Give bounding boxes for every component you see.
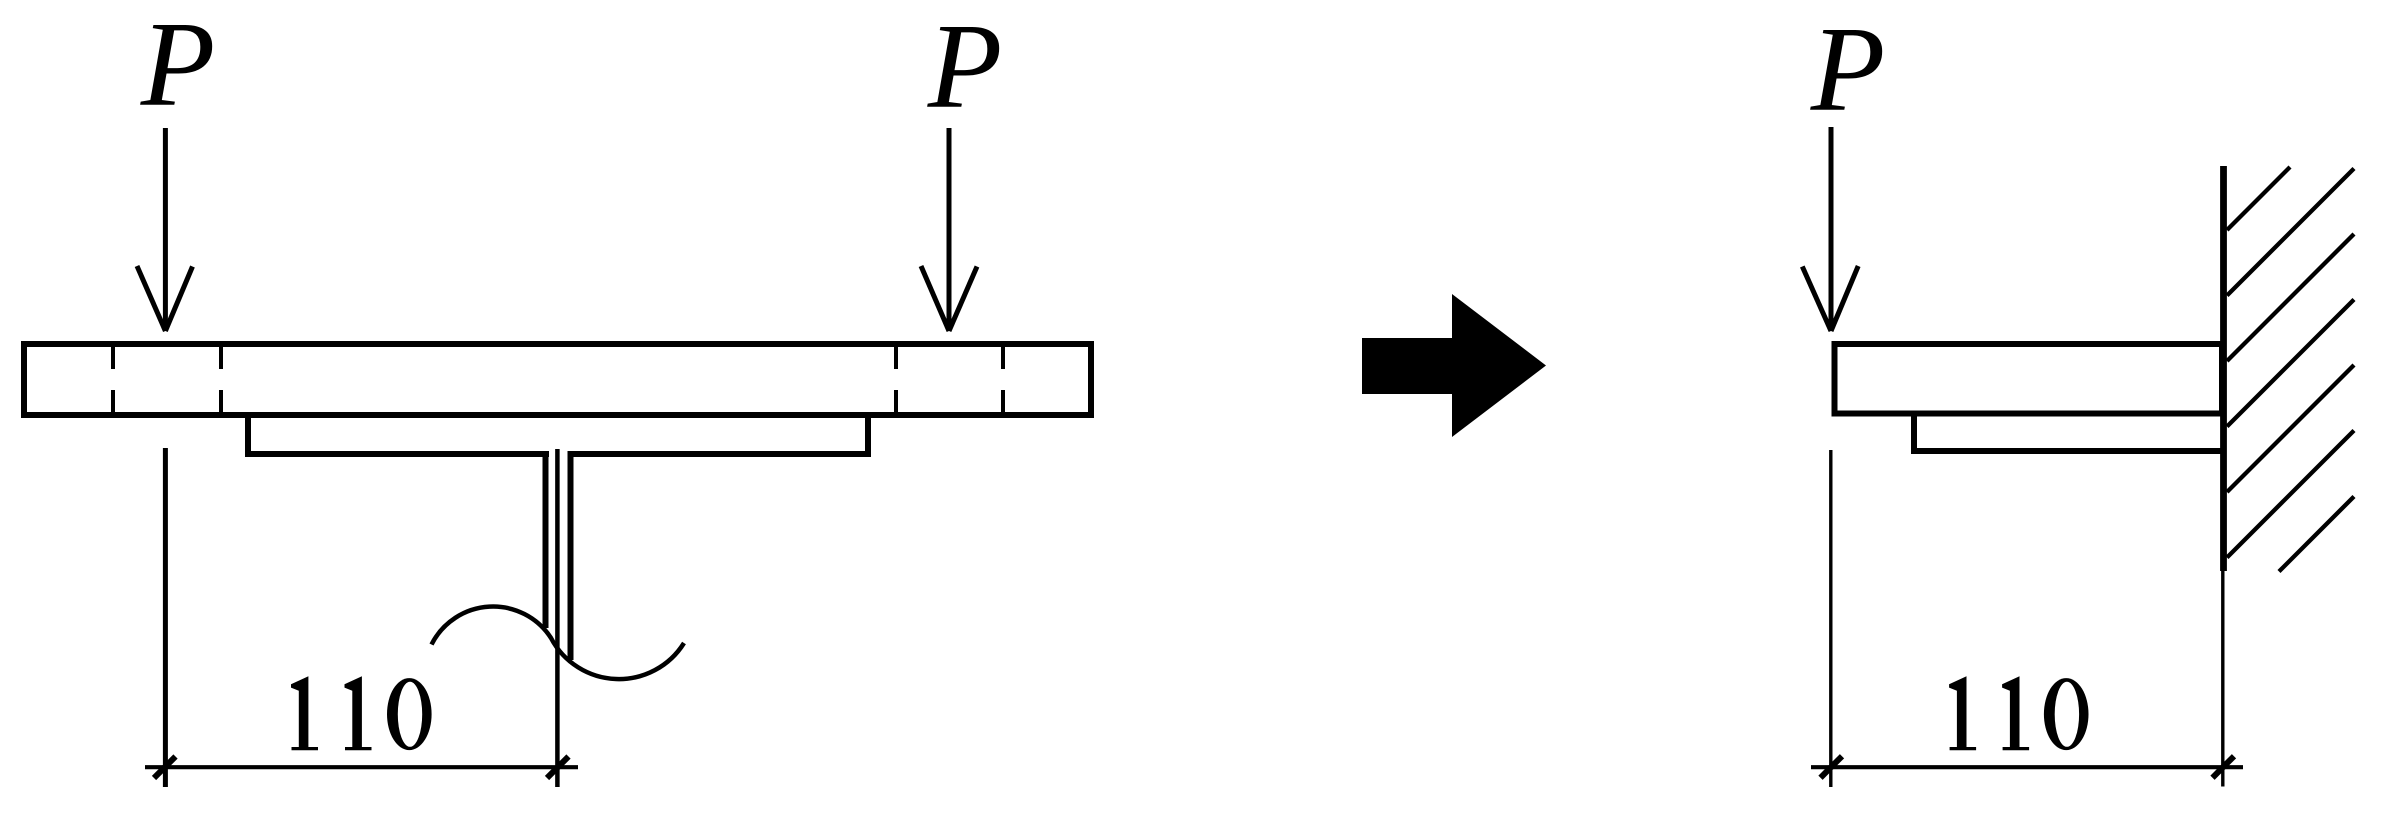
- big block arrow: [1362, 294, 1546, 437]
- extension line (right figure, left): [1829, 450, 1832, 787]
- force arrow P (right load, left figure): [921, 128, 977, 331]
- wall line: [2220, 166, 2227, 571]
- dimension tick left (right figure): [1821, 756, 1843, 778]
- force arrow P (right figure): [1802, 127, 1858, 331]
- break wavy line: [432, 607, 685, 680]
- dimension text 110 (left figure): [291, 676, 318, 750]
- extension line (left figure, under load P): [163, 448, 168, 787]
- dimension text 110 (right figure): [1949, 676, 1976, 750]
- force arrow P (left load, left figure): [137, 128, 193, 331]
- bottom plate left part (left figure): [248, 414, 549, 454]
- bottom plate right part (left figure): [568, 414, 868, 454]
- dimension line 110 (right figure): [1811, 765, 2243, 769]
- svg-text:P: P: [927, 0, 1003, 134]
- svg-text:P: P: [1810, 2, 1886, 137]
- dimension tick right: [547, 757, 569, 779]
- extension line (right figure, wall): [2221, 571, 2224, 787]
- dashed contact line 4: [1001, 347, 1005, 412]
- svg-text:P: P: [140, 0, 216, 132]
- beam top flange (left figure): [24, 344, 1091, 415]
- dimension tick right (right figure): [2213, 756, 2235, 778]
- dashed contact line 1: [111, 347, 115, 412]
- dashed contact line 3: [894, 347, 898, 412]
- dashed contact line 2: [219, 347, 223, 412]
- dimension tick left: [154, 757, 176, 779]
- dimension line 110 (left figure): [145, 765, 578, 769]
- web stem right edge: [568, 451, 574, 660]
- cantilever beam (right figure): [1835, 344, 2223, 414]
- bottom plate (right figure): [1914, 413, 2225, 451]
- wall hatching: [2227, 167, 2354, 572]
- web centerline / extension line: [555, 449, 560, 787]
- web stem left edge: [543, 451, 549, 628]
